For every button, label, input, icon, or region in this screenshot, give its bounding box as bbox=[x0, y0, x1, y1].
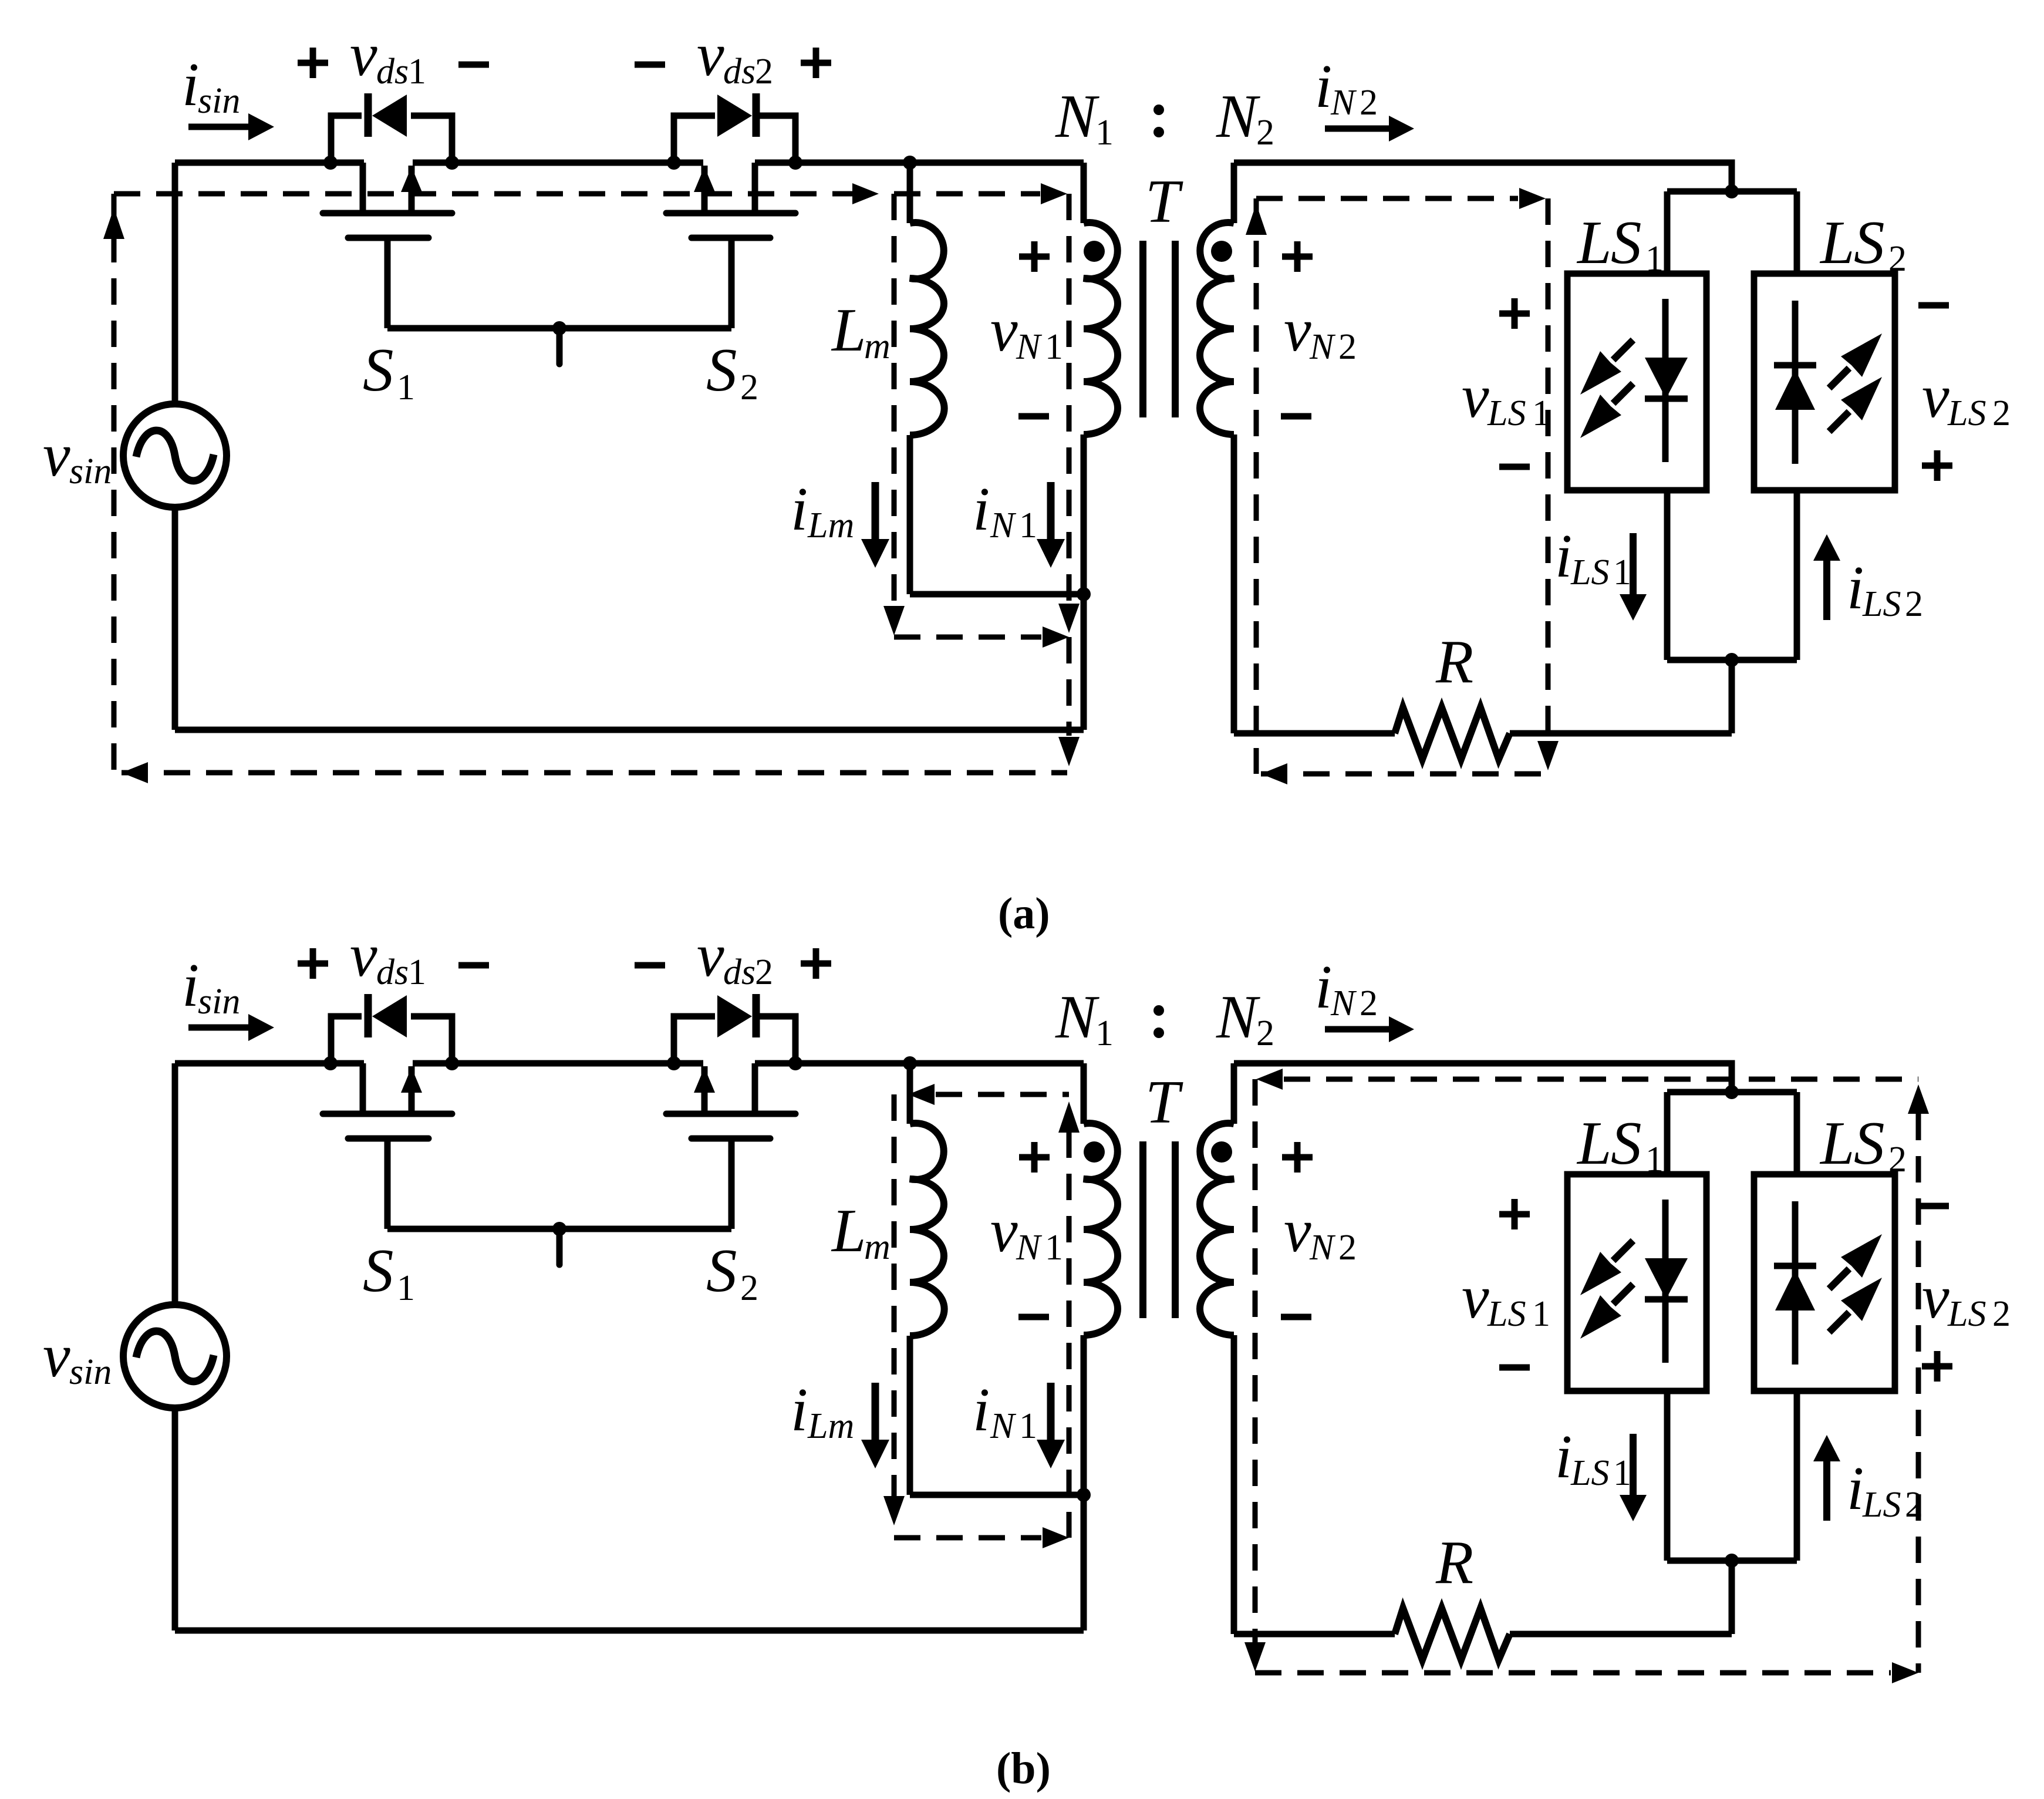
svg-text:(a): (a) bbox=[998, 889, 1050, 938]
svg-text:(b): (b) bbox=[996, 1744, 1051, 1793]
